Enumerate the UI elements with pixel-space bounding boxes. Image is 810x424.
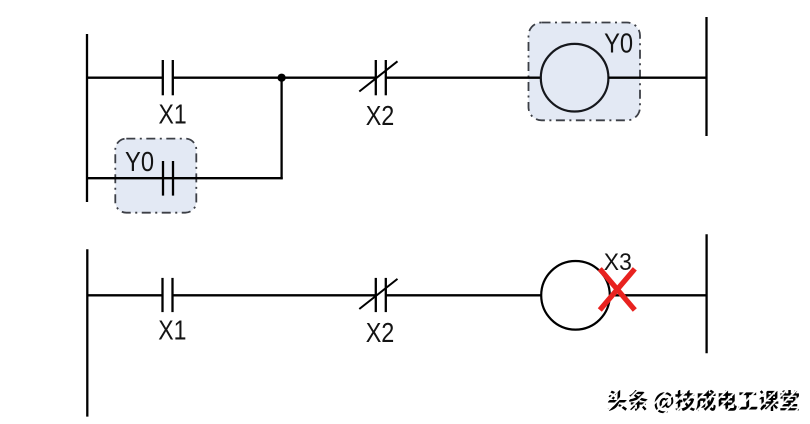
wire: contact X1 to junction to contact X2 (173, 77, 376, 79)
red X error mark over coil X3 (600, 269, 635, 310)
wire: branch vertical from junction (280, 78, 282, 180)
contact Y0 (normally open, branch) (163, 161, 173, 196)
contact X2 (normally closed, rung 1) (359, 60, 397, 95)
left power rail (rung 2) (86, 249, 88, 416)
coil X3 (output circle, rung 2) (541, 261, 610, 330)
svg-text:X1: X1 (158, 315, 186, 346)
highlight box around contact Y0 (dash-dot, light blue) (115, 139, 196, 213)
svg-text:X2: X2 (366, 100, 395, 131)
junction node (dot) (278, 74, 286, 82)
svg-text:X3: X3 (604, 249, 632, 276)
contact X1 (normally open, rung 1) (163, 60, 173, 95)
wire: contact X2 to coil Y0 (386, 77, 541, 79)
coil Y0 (output circle) (541, 44, 609, 112)
right power rail (rung 1) (705, 17, 707, 136)
svg-text:X2: X2 (366, 317, 395, 348)
svg-text:Y0: Y0 (604, 27, 633, 58)
wire: left rail to contact X1 (rung 2) (87, 294, 162, 296)
highlight box around coil Y0 (dash-dot, light blue) (529, 23, 641, 121)
wire: left rail to contact X1 (87, 77, 163, 79)
contact X2 (normally closed, rung 2) (359, 278, 397, 312)
wire: branch horizontal (left rail to vertical) (87, 177, 283, 179)
svg-text:X1: X1 (159, 99, 187, 130)
right power rail (rung 2) (705, 234, 707, 353)
contact X1 (normally open, rung 2) (163, 278, 173, 312)
wire: contact X1 to contact X2 (rung 2) (173, 294, 376, 296)
wire: contact X2 to coil X3 (386, 294, 541, 296)
left power rail (rung 1) (86, 34, 88, 202)
wire: coil Y0 to right rail (608, 77, 706, 79)
watermark 头条@技成电工课堂 (striped) (598, 378, 810, 424)
wire: coil X3 to right rail (610, 294, 707, 296)
svg-text:Y0: Y0 (125, 146, 154, 177)
